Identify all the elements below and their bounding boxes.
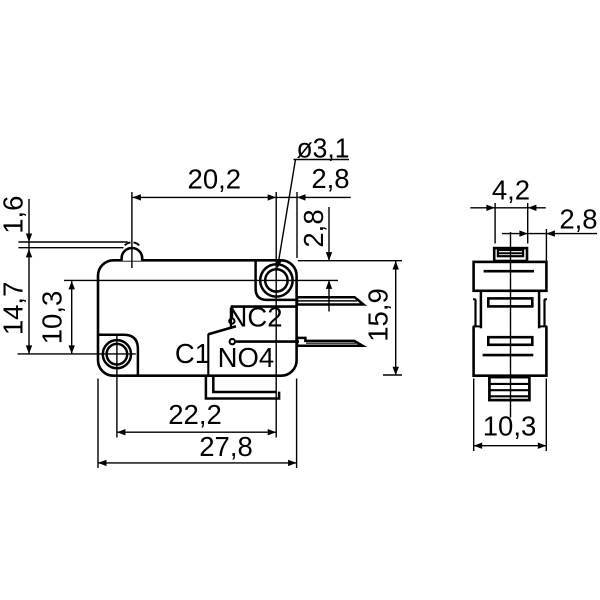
- svg-text:10,3: 10,3: [483, 411, 537, 442]
- svg-text:NO4: NO4: [218, 342, 275, 373]
- svg-text:15,9: 15,9: [363, 288, 394, 342]
- svg-text:NC2: NC2: [227, 302, 282, 333]
- svg-text:4,2: 4,2: [492, 175, 530, 206]
- svg-text:1,6: 1,6: [0, 196, 29, 234]
- svg-text:ø3,1: ø3,1: [297, 132, 350, 163]
- svg-text:C1: C1: [175, 338, 210, 369]
- svg-text:2,8: 2,8: [311, 163, 349, 194]
- svg-text:2,8: 2,8: [298, 209, 329, 247]
- svg-text:10,3: 10,3: [37, 291, 68, 345]
- svg-text:22,2: 22,2: [168, 399, 222, 430]
- svg-text:14,7: 14,7: [0, 282, 29, 336]
- svg-text:27,8: 27,8: [199, 431, 253, 462]
- svg-text:20,2: 20,2: [188, 163, 242, 194]
- svg-text:2,8: 2,8: [559, 204, 597, 235]
